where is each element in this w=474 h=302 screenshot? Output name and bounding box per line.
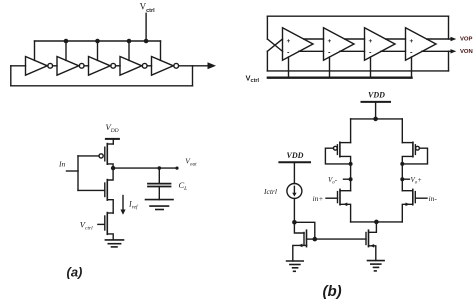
svg-text:(b): (b): [323, 283, 342, 300]
wire VDD to Ictrl: [293, 162, 295, 183]
supply bar VDD main: [362, 101, 391, 103]
arrow Iref: [120, 196, 125, 215]
wire feedback left lower: [266, 51, 268, 71]
wire VDD rail right drop: [401, 119, 403, 143]
wire CL top: [158, 168, 160, 183]
ground CL: [146, 200, 174, 210]
node Vout junction: [111, 166, 115, 170]
delay stage A2: [324, 28, 355, 60]
inverter U1: [26, 57, 53, 76]
wire rail stub to U1: [34, 41, 36, 60]
wire P2 drain down: [401, 164, 403, 191]
junction P2 drain: [400, 162, 404, 166]
current source Ictrl: [287, 184, 302, 199]
wire VDD to M1: [112, 139, 114, 144]
wire rail stub to U5: [160, 41, 162, 60]
wire M2 gate lead: [78, 189, 105, 191]
wire feedback right upper: [448, 16, 450, 39]
wire Vo- lead: [344, 178, 351, 180]
wire Vctrl rail: [35, 40, 161, 42]
wire U1 input: [11, 65, 26, 67]
svg-text:Ictrl: Ictrl: [263, 187, 277, 196]
wire In lead: [67, 170, 79, 172]
wire mirror gate: [315, 238, 366, 240]
wire A1-A2 lower: [299, 50, 324, 52]
wire feedback left upper: [266, 16, 268, 39]
wire feedback top: [267, 15, 448, 17]
junction rail-U3: [95, 39, 100, 44]
wire VOP out: [427, 38, 451, 40]
delay stage A4: [406, 28, 437, 60]
wire A3-A4 lower: [381, 50, 406, 52]
wire P1 gate loop: [325, 148, 350, 164]
capacitor CL: [148, 184, 171, 187]
wire M1 gate lead: [78, 155, 99, 157]
transistor P2 PMOS: [402, 142, 419, 164]
svg-text:+: +: [410, 38, 414, 45]
wire mirror top: [294, 222, 314, 239]
wire P2 gate loop: [402, 148, 427, 164]
junction tail: [374, 220, 379, 225]
transistor N2 NMOS: [402, 189, 415, 222]
svg-text:+: +: [369, 38, 373, 45]
junction rail-Vctrl: [144, 39, 149, 44]
delay stage A1: [283, 28, 314, 60]
svg-text:VDD: VDD: [368, 91, 385, 100]
wire Ictrl down: [293, 199, 295, 223]
transistor N1 NMOS: [338, 189, 351, 222]
node Vo-: [349, 177, 353, 181]
wire A3 ctrl drop: [370, 57, 372, 78]
wire cross A: [267, 39, 282, 51]
arrowhead VON: [451, 49, 457, 53]
wire Vctrl bus: [268, 76, 412, 78]
junction rail-U2: [64, 39, 69, 44]
svg-text:(a): (a): [67, 265, 83, 280]
svg-text:in-: in-: [429, 194, 438, 203]
wire CL bottom: [158, 187, 160, 200]
wire N2 gate lead: [415, 197, 427, 199]
junction Ictrl node: [292, 220, 297, 225]
transistor M5 NMOS: [293, 230, 315, 261]
svg-text:VON: VON: [460, 49, 473, 55]
transistor M3 NMOS: [105, 213, 113, 240]
wire A2 ctrl drop: [329, 57, 331, 78]
wire rail stub to U2: [65, 41, 67, 60]
wire VDD rail left drop: [350, 119, 352, 143]
wire A3-A4 upper: [386, 38, 406, 40]
inverter U2: [57, 57, 84, 76]
wire feedback down: [192, 66, 194, 86]
wire M5 gate loop: [294, 222, 304, 233]
transistor M6 NMOS: [366, 222, 376, 261]
delay stage A3: [365, 28, 396, 60]
wire output: [179, 65, 208, 67]
junction P1 drain: [349, 162, 353, 166]
wire N1 gate lead: [326, 197, 338, 199]
wire A2-A3 upper: [345, 38, 365, 40]
wire gate rail: [77, 156, 79, 191]
wire U3-U4: [116, 65, 120, 67]
inverter U4: [120, 57, 147, 76]
wire U1-U2: [53, 65, 57, 67]
ground M5: [287, 261, 304, 271]
svg-text:VOP: VOP: [460, 37, 473, 43]
junction rail-U4: [127, 39, 132, 44]
wire P1 drain down: [350, 164, 352, 191]
junction M5 drain: [313, 237, 318, 242]
arrowhead VOP: [451, 37, 457, 41]
wire VDD drop: [375, 102, 377, 119]
wire tail rail: [351, 221, 403, 223]
wire Vo+ lead: [402, 178, 409, 180]
svg-text:+: +: [287, 38, 291, 45]
transistor M1 PMOS: [99, 144, 113, 169]
transistor M2 NMOS: [105, 168, 113, 213]
ground M6: [368, 261, 385, 271]
wire cross B: [267, 39, 282, 51]
inverter U5: [152, 57, 179, 76]
node Vout terminal: [175, 167, 178, 170]
junction VDD node: [373, 117, 378, 122]
inverter U3: [89, 57, 116, 76]
wire A1 ctrl drop: [288, 57, 290, 78]
wire U2-U3: [84, 65, 88, 67]
wire feedback up-left: [10, 66, 12, 86]
wire output to CL: [113, 167, 177, 169]
wire VDD rail: [351, 118, 403, 120]
transistor P1 PMOS: [333, 142, 350, 164]
svg-text:In: In: [58, 160, 65, 169]
wire U4-U5: [147, 65, 151, 67]
svg-text:VDD: VDD: [287, 151, 304, 160]
wire VON out: [422, 50, 451, 52]
wire rail stub to U4: [128, 41, 130, 60]
ground M3: [105, 240, 123, 247]
supply bar VDD ictrl: [279, 161, 310, 163]
junction CL tap: [158, 166, 162, 170]
wire A1-A2 upper: [304, 38, 324, 40]
node Vo+: [400, 177, 404, 181]
svg-text:+: +: [328, 38, 332, 45]
wire A2-A3 lower: [340, 50, 365, 52]
arrowhead output: [208, 62, 217, 69]
supply bar VDD: [106, 138, 119, 140]
svg-text:in+: in+: [313, 194, 324, 203]
wire A4 ctrl drop: [411, 57, 413, 78]
wire feedback bottom: [11, 85, 193, 87]
wire Vctrl drop: [145, 13, 147, 41]
wire rail stub to U3: [97, 41, 99, 60]
wire feedback right lower: [448, 51, 450, 71]
wire M3 gate lead: [98, 223, 105, 225]
wire feedback bottom: [267, 70, 448, 72]
